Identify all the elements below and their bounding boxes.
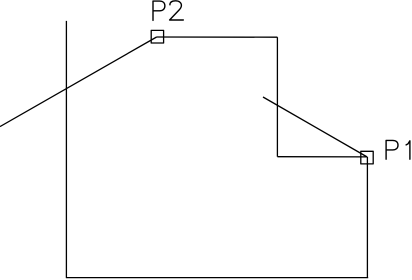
- wire diagonal to P1: [263, 97, 367, 157]
- wire horizontal line to P1: [277, 156, 367, 158]
- wire left vertical line: [65, 21, 67, 278]
- wire diagonal to P2: [0, 37, 157, 127]
- wire middle vertical line: [276, 37, 278, 157]
- node P1 marker square: [361, 151, 373, 164]
- label P2 letter P: [153, 1, 165, 20]
- label P2 digit 2: [170, 1, 184, 20]
- node P2 marker square: [151, 30, 163, 43]
- wire bottom horizontal line: [66, 277, 368, 279]
- wire right vertical line below P1: [366, 157, 368, 278]
- label P1 letter P: [386, 140, 398, 159]
- label P1 digit 1: [406, 141, 410, 159]
- wire top horizontal line from P2: [157, 36, 278, 38]
